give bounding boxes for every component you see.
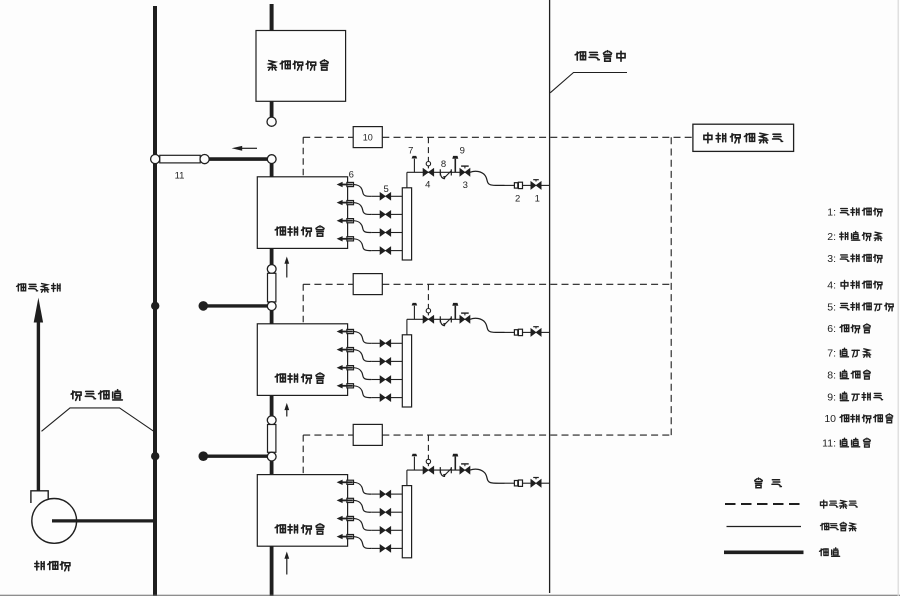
manual ball valve 1, unit 1	[531, 180, 550, 190]
exhaust fan volute	[31, 491, 77, 544]
svg-text:9: 9	[460, 145, 465, 156]
flow arrow left above duct	[232, 146, 257, 151]
svg-text:5: 5	[384, 184, 389, 195]
dashed drop to igniter, unit 3	[302, 435, 304, 502]
svg-text:6:: 6:	[827, 323, 836, 335]
local control box (10), unit 3	[353, 424, 382, 445]
duct stub below furnace 1	[270, 248, 274, 264]
dashed control drop to valve 4 actuator, unit 1	[427, 137, 429, 161]
manual regulating valve 5, row 1, unit 2	[371, 340, 402, 348]
svg-text:1:: 1:	[827, 206, 836, 218]
burner 3 (6), unit 1	[337, 218, 354, 223]
svg-text:9:: 9:	[827, 391, 836, 403]
control bus dashed vertical	[670, 137, 672, 435]
flexible hose burner 3, unit 2	[354, 368, 372, 380]
legend item 4:	[827, 279, 882, 291]
roasting furnace chamber box, unit 2	[257, 324, 347, 396]
gas main label leader line	[550, 73, 627, 93]
filter 8, unit 3	[440, 467, 451, 477]
dashed control drop to valve 4 actuator, unit 3	[427, 435, 429, 459]
gas manifold header, unit 3	[402, 486, 411, 558]
manual regulating valve 5, row 4, unit 2	[371, 394, 402, 402]
manual regulating valve 5, row 3, unit 2	[371, 376, 402, 384]
svg-text:4: 4	[425, 179, 430, 190]
flexible hose burner 1, unit 3	[354, 482, 372, 494]
connecting cover 11 between furnace 2 and 3	[267, 416, 276, 461]
legend item 9:	[827, 391, 882, 403]
burner 3 (6), unit 2	[337, 365, 354, 370]
quick coupling 2, unit 2	[505, 329, 531, 335]
flexible hose burner 1, unit 1	[354, 185, 372, 197]
connecting sleeve right circle	[200, 155, 209, 164]
key dashed sample line	[725, 503, 803, 505]
key thin sample line	[727, 526, 802, 528]
igniter circle in furnace, unit 1	[301, 204, 305, 210]
dashed drop to igniter, unit 1	[302, 137, 304, 204]
control dashed line right of local box, unit 2	[382, 283, 671, 285]
burner 2 (6), unit 2	[337, 347, 354, 352]
furnace column duct top segment	[270, 4, 274, 31]
flexible hose burner 2, unit 2	[354, 350, 372, 362]
roasting furnace chamber box, unit 3	[257, 475, 347, 547]
filter 8, unit 1	[440, 169, 451, 179]
bottom page border line	[0, 594, 900, 596]
burner 2 (6), unit 3	[337, 498, 354, 503]
flexible hose to quick coupling, unit 1	[470, 171, 505, 185]
legend item 5:	[827, 301, 893, 313]
central control system label (zhong yang kong zhi xi tong)	[704, 133, 783, 143]
waiting roasting chamber box (dai bei shao lu shi)	[256, 31, 346, 102]
manual regulating valve 5, row 3, unit 3	[371, 527, 402, 535]
svg-text:6: 6	[349, 169, 354, 180]
junction dot on flue at y306	[151, 302, 159, 310]
legend item 1:	[827, 206, 882, 218]
open damper circle below waiting chamber	[267, 117, 276, 126]
capped duct stub to connecting cover 2	[199, 451, 268, 461]
branch gas line, unit 2	[407, 318, 470, 320]
quick coupling 2, unit 1	[505, 182, 531, 188]
gas pipe network label (mei qi guan wang)	[575, 51, 625, 62]
exhaust discharge arrow	[34, 298, 43, 491]
connecting sleeve 11 cylinder horizontal	[160, 155, 200, 163]
manual regulating valve 5, row 2, unit 2	[371, 358, 402, 366]
duct stub above furnace 3	[270, 461, 274, 475]
svg-text:11:: 11:	[822, 438, 836, 450]
manual regulating valve 5, row 3, unit 1	[371, 229, 402, 237]
waiting roasting chamber label	[268, 60, 328, 70]
local control box (10), unit 2	[353, 274, 382, 295]
roasting furnace chamber label (bei shao lu shi), unit 1	[275, 226, 324, 237]
branch gas line, unit 3	[407, 469, 470, 471]
svg-text:2:: 2:	[827, 231, 836, 243]
legend item 2:	[827, 231, 882, 243]
manual regulating valve 5, row 2, unit 1	[371, 211, 402, 219]
pressure switch 9, unit 1	[452, 156, 458, 172]
duct stub above furnace 2	[270, 311, 274, 325]
pressure gauge 7, unit 1	[412, 156, 418, 172]
burner 1 (6), unit 1	[337, 182, 354, 187]
svg-text:3: 3	[463, 180, 468, 191]
quick coupling 2, unit 3	[505, 480, 531, 486]
local control box (10), unit 1	[353, 127, 382, 148]
manual regulating valve 5, row 4, unit 3	[371, 545, 402, 553]
svg-text:2: 2	[515, 194, 520, 205]
gas pipeline label (mei qi guan xian)	[820, 522, 856, 531]
legend item 3:	[827, 253, 882, 265]
exhaust fan label (pai yan ji)	[35, 561, 70, 571]
duct below furnace 3 to bottom	[270, 546, 274, 596]
pressure gauge 7, unit 3	[412, 454, 418, 470]
svg-text:5:: 5:	[827, 301, 836, 313]
svg-text:3:: 3:	[827, 253, 836, 265]
flexible hose burner 4, unit 1	[354, 239, 372, 251]
flexible hose burner 3, unit 3	[354, 519, 372, 531]
control dashed line left of local box, unit 2	[303, 283, 353, 285]
duct stub below furnace 2	[270, 396, 274, 416]
manual regulating valve 5, row 1, unit 3	[371, 490, 402, 498]
riser from manifold, unit 3	[406, 470, 408, 486]
branch gas line, unit 1	[407, 171, 470, 173]
junction circle above furnace 1	[267, 155, 276, 164]
burner 4 (6), unit 3	[337, 534, 354, 539]
manual regulating valve 5, row 1, unit 1	[371, 193, 402, 201]
gas manifold header, unit 1	[402, 188, 411, 260]
control dashed line right of local box, unit 1	[382, 136, 693, 138]
manual ball valve 1, unit 3	[531, 478, 550, 488]
manual ball valve 3, unit 1	[460, 166, 470, 176]
up flow arrow 2	[284, 403, 289, 417]
legend item 6:	[827, 323, 870, 335]
svg-text:10: 10	[824, 413, 836, 425]
waste gas flue label (fei qi yan dao)	[71, 390, 122, 401]
svg-text:10: 10	[363, 133, 373, 143]
manual ball valve 3, unit 2	[460, 313, 470, 323]
svg-text:4:: 4:	[827, 279, 836, 291]
manual ball valve 1, unit 2	[531, 327, 550, 337]
roasting furnace chamber label (bei shao lu shi), unit 2	[275, 373, 324, 384]
right page border faint line	[897, 0, 899, 596]
svg-text:11: 11	[175, 171, 185, 182]
junction dot on flue at y456	[151, 452, 159, 460]
pressure switch 9, unit 2	[452, 303, 458, 319]
fan outlet duct line to flue	[52, 519, 155, 522]
flexible hose burner 4, unit 2	[354, 386, 372, 398]
roasting furnace chamber box, unit 1	[257, 177, 347, 249]
riser from manifold, unit 1	[406, 172, 408, 188]
thick duct to furnace column	[209, 157, 267, 161]
legend item 10	[824, 413, 892, 425]
svg-text:8: 8	[441, 159, 446, 170]
flexible hose burner 1, unit 2	[354, 332, 372, 344]
burner 4 (6), unit 1	[337, 236, 354, 241]
igniter circle in furnace, unit 2	[301, 351, 305, 357]
automatic ball valve 4, unit 3	[423, 459, 434, 474]
control dashed line left of local box, unit 3	[303, 434, 353, 436]
pressure gauge 7, unit 2	[412, 303, 418, 319]
flexible hose to quick coupling, unit 3	[470, 469, 505, 483]
flexible hose to quick coupling, unit 2	[470, 318, 505, 332]
legend item 11:	[822, 438, 870, 450]
riser from manifold, unit 2	[406, 319, 408, 335]
flexible hose burner 4, unit 3	[354, 537, 372, 549]
legend item 8:	[827, 369, 870, 381]
filter 8, unit 2	[440, 316, 451, 326]
pressure switch 9, unit 3	[452, 454, 458, 470]
manual regulating valve 5, row 4, unit 1	[371, 247, 402, 255]
up flow arrow 1	[284, 257, 289, 278]
dashed control drop to valve 4 actuator, unit 2	[427, 284, 429, 308]
flexible hose burner 2, unit 3	[354, 500, 372, 512]
igniter circle in furnace, unit 3	[301, 502, 305, 508]
flue label (yan dao)	[820, 548, 840, 557]
control dashed line left of local box, unit 1	[303, 136, 353, 138]
manual regulating valve 5, row 2, unit 3	[371, 508, 402, 516]
burner 1 (6), unit 2	[337, 329, 354, 334]
burner 4 (6), unit 2	[337, 383, 354, 388]
dashed drop to igniter, unit 2	[302, 284, 304, 351]
svg-text:1: 1	[535, 194, 540, 205]
legend item 7:	[827, 348, 870, 360]
burner 3 (6), unit 3	[337, 516, 354, 521]
key thick sample line	[724, 550, 804, 554]
waste gas flue leader lines	[42, 408, 156, 433]
svg-text:8:: 8:	[827, 369, 836, 381]
duct stub into furnace 1	[270, 164, 274, 178]
automatic ball valve 4, unit 2	[423, 309, 434, 324]
svg-text:7:: 7:	[827, 348, 836, 360]
svg-text:7: 7	[408, 145, 413, 156]
central control system box	[693, 124, 794, 151]
duct stub below waiting chamber	[270, 101, 274, 117]
automatic ball valve 4, unit 1	[423, 162, 434, 177]
roasting furnace chamber label (bei shao lu shi), unit 3	[275, 524, 324, 535]
burner 2 (6), unit 1	[337, 200, 354, 205]
burner 1 (6), unit 3	[337, 480, 354, 485]
flexible hose burner 2, unit 1	[354, 203, 372, 215]
control dashed line right of local box, unit 3	[382, 434, 671, 436]
symbol key title (fu hao)	[755, 478, 782, 488]
connecting cover 11 between furnace 1 and 2	[267, 265, 276, 311]
electric system label (dian qi xi tong)	[820, 500, 857, 508]
smoke outward discharge label (yan qi wai pai)	[17, 284, 60, 293]
flue duct main vertical	[153, 6, 157, 596]
flexible hose burner 3, unit 1	[354, 221, 372, 233]
connecting sleeve circle on flue line	[151, 155, 160, 164]
gas supply main vertical line	[549, 0, 551, 593]
gas manifold header, unit 2	[402, 335, 411, 407]
up flow arrow 3	[284, 552, 289, 575]
capped duct stub to connecting cover 1	[199, 301, 268, 311]
manual ball valve 3, unit 3	[460, 464, 470, 474]
